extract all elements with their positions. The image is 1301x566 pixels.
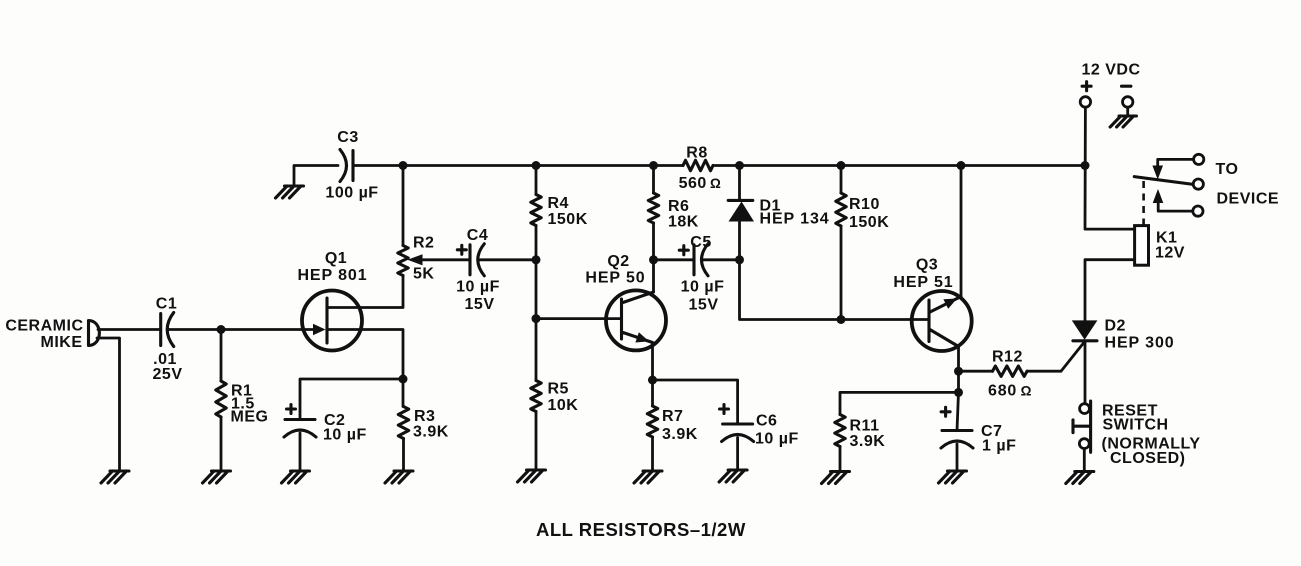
svg-text:Q3: Q3 — [916, 257, 938, 274]
svg-text:10 µF: 10 µF — [456, 279, 500, 296]
svg-text:C3: C3 — [337, 129, 358, 146]
svg-text:5K: 5K — [413, 266, 434, 283]
svg-text:C5: C5 — [690, 234, 711, 251]
svg-text:R8: R8 — [686, 145, 707, 162]
svg-text:680 Ω: 680 Ω — [988, 383, 1032, 400]
svg-text:10 µF: 10 µF — [755, 431, 799, 448]
svg-text:R4: R4 — [548, 195, 569, 212]
svg-text:C4: C4 — [467, 227, 488, 244]
svg-text:HEP 134: HEP 134 — [760, 211, 830, 228]
svg-text:SWITCH: SWITCH — [1103, 417, 1169, 434]
svg-text:150K: 150K — [548, 211, 588, 228]
svg-text:HEP 300: HEP 300 — [1105, 335, 1175, 352]
svg-text:R3: R3 — [414, 408, 435, 425]
svg-text:100 µF: 100 µF — [325, 185, 378, 202]
svg-text:3.9K: 3.9K — [850, 433, 886, 450]
svg-text:MIKE: MIKE — [41, 334, 83, 351]
svg-text:18K: 18K — [668, 214, 699, 231]
svg-text:12 VDC: 12 VDC — [1082, 62, 1141, 79]
svg-text:CERAMIC: CERAMIC — [5, 318, 83, 335]
svg-text:HEP 801: HEP 801 — [297, 267, 367, 284]
svg-text:R12: R12 — [992, 349, 1023, 366]
svg-text:15V: 15V — [689, 297, 719, 314]
svg-text:150K: 150K — [849, 214, 889, 231]
svg-text:10 µF: 10 µF — [681, 279, 725, 296]
svg-text:1 µF: 1 µF — [982, 438, 1016, 455]
svg-text:MEG: MEG — [231, 409, 269, 426]
svg-text:R11: R11 — [850, 418, 880, 435]
svg-text:R5: R5 — [548, 381, 569, 398]
svg-text:R7: R7 — [662, 408, 683, 425]
svg-text:R6: R6 — [668, 198, 689, 215]
svg-text:Q1: Q1 — [325, 250, 347, 267]
svg-text:10 µF: 10 µF — [323, 427, 367, 444]
svg-text:10K: 10K — [548, 397, 579, 414]
svg-text:CLOSED): CLOSED) — [1110, 450, 1186, 467]
svg-text:C6: C6 — [756, 413, 777, 430]
svg-text:25V: 25V — [153, 366, 183, 383]
svg-text:HEP 51: HEP 51 — [893, 274, 953, 291]
svg-text:3.9K: 3.9K — [413, 424, 449, 441]
svg-text:Q2: Q2 — [607, 253, 629, 270]
svg-text:R10: R10 — [849, 196, 880, 213]
svg-text:15V: 15V — [465, 296, 495, 313]
svg-text:D2: D2 — [1105, 318, 1126, 335]
svg-text:HEP 50: HEP 50 — [585, 270, 645, 287]
svg-text:DEVICE: DEVICE — [1217, 191, 1280, 208]
svg-text:ALL RESISTORS–1/2W: ALL RESISTORS–1/2W — [536, 519, 746, 540]
svg-text:R2: R2 — [413, 235, 434, 252]
svg-text:C1: C1 — [156, 296, 177, 313]
svg-text:12V: 12V — [1155, 245, 1185, 262]
svg-text:3.9K: 3.9K — [662, 426, 698, 443]
svg-text:TO: TO — [1216, 161, 1239, 178]
svg-text:560 Ω: 560 Ω — [679, 175, 722, 192]
